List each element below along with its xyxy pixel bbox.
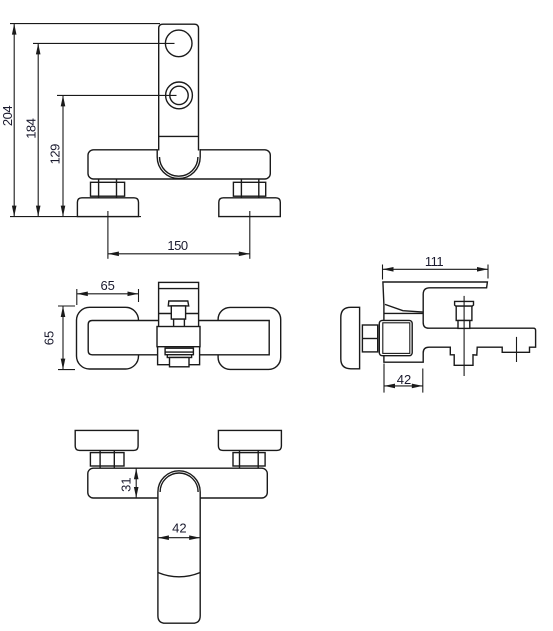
arrows front dims (12, 24, 250, 257)
dim 65 top extension left (76, 289, 78, 305)
dim 111 line (383, 268, 489, 270)
right dome (bottom view) (218, 430, 281, 450)
dim 204 extension top (10, 23, 160, 25)
dim 65 left extension top (58, 305, 75, 307)
svg-text:42: 42 (397, 372, 411, 387)
dim 204 extension bottom (10, 216, 141, 218)
cartridge line A (159, 288, 199, 290)
wall nut mid line (362, 338, 377, 340)
wall escutcheon (341, 307, 360, 369)
dim 42 extension left (383, 364, 385, 393)
valve body outer (379, 320, 412, 355)
dim 204 line (13, 24, 15, 217)
right neck ticks (239, 450, 241, 453)
dim 42b line (158, 537, 200, 539)
lower ring outer (166, 82, 193, 109)
right foot nut (233, 182, 265, 196)
dim 65 left extension bottom (58, 369, 75, 371)
lever back slope edge (385, 304, 423, 312)
right foot neck ticks (240, 179, 242, 183)
right wall square (218, 307, 281, 369)
left wall square (77, 307, 139, 369)
collar slab inner line (165, 351, 193, 353)
knob stem (171, 306, 185, 319)
dim 65 top line (77, 293, 139, 295)
dim 150 line (108, 253, 250, 255)
cartridge line B (159, 313, 199, 315)
handle upper (159, 24, 199, 150)
knob cap (168, 301, 188, 306)
valve body inner (383, 323, 410, 354)
aerator centerline (516, 337, 518, 362)
collar line (384, 312, 423, 314)
handle divider line (159, 135, 199, 137)
handle U inner arc (160, 157, 198, 176)
svg-text:65: 65 (41, 331, 56, 345)
left escutcheon dome (77, 198, 138, 217)
handle (bottom view) (158, 471, 200, 623)
svg-text:42: 42 (172, 520, 186, 535)
collar step (167, 355, 191, 358)
dim 31 line (135, 468, 137, 498)
dim 129 line (62, 95, 64, 216)
left nut (bottom) (90, 453, 124, 466)
handle inner arc (160, 473, 198, 492)
dim 184 line (37, 43, 39, 216)
dim 65 left line (62, 306, 64, 370)
body profile path (383, 282, 536, 365)
right escutcheon dome (219, 198, 280, 217)
dim 150 extension left (107, 211, 109, 259)
dim 65 top extension right (138, 289, 140, 302)
diverter knob cap (455, 301, 474, 306)
svg-text:129: 129 (47, 144, 62, 164)
dim 150 extension right (249, 211, 251, 259)
right nut (bottom) (233, 453, 265, 466)
svg-text:65: 65 (100, 278, 114, 293)
left foot nut (91, 182, 125, 196)
diverter knob mid (456, 306, 472, 320)
handle divider (158, 573, 200, 577)
svg-text:31: 31 (119, 477, 134, 491)
dim 129 extension (57, 94, 177, 96)
bottom tab (170, 358, 190, 367)
left neck ticks (99, 450, 101, 453)
diverter knob stem (458, 321, 470, 329)
body bar (88, 150, 270, 179)
body bar (plan) (88, 321, 269, 355)
dim 111 extension right (487, 265, 489, 279)
cartridge upper block (159, 282, 199, 346)
svg-text:184: 184 (23, 118, 38, 138)
svg-text:204: 204 (0, 106, 15, 126)
svg-text:150: 150 (167, 238, 187, 253)
svg-text:111: 111 (425, 254, 444, 269)
left dome (bottom view) (75, 430, 138, 450)
top circle (165, 30, 192, 57)
cartridge lower wings (158, 347, 200, 365)
knob neck (174, 319, 185, 328)
dim 111 extension left (382, 265, 384, 280)
diverter centerline (463, 296, 465, 376)
dim 42 extension right (422, 369, 424, 393)
cartridge wide block (157, 327, 200, 347)
body bar (bottom) (88, 468, 267, 498)
wall nut (362, 325, 377, 352)
dim 184 extension (33, 42, 175, 44)
left foot neck ticks (98, 179, 100, 183)
dim 42 line (384, 385, 423, 387)
collar slab (165, 348, 193, 355)
handle lower U (157, 149, 200, 178)
lower ring inner (170, 86, 188, 104)
